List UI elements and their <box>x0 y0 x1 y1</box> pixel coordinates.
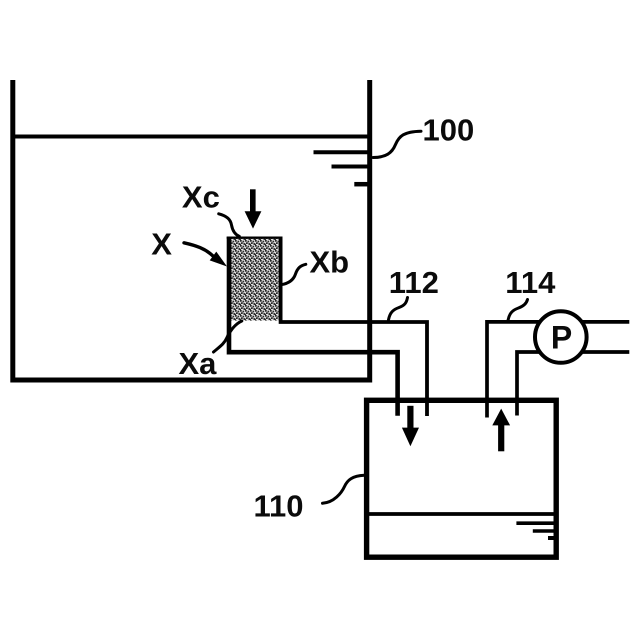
svg-text:X: X <box>151 226 172 261</box>
svg-text:P: P <box>551 320 572 356</box>
svg-text:Xb: Xb <box>310 244 350 279</box>
svg-text:112: 112 <box>389 265 439 300</box>
svg-text:Xc: Xc <box>182 179 220 214</box>
svg-text:114: 114 <box>505 265 556 300</box>
svg-text:Xa: Xa <box>179 346 218 381</box>
svg-text:110: 110 <box>254 488 304 523</box>
svg-text:100: 100 <box>423 112 475 147</box>
